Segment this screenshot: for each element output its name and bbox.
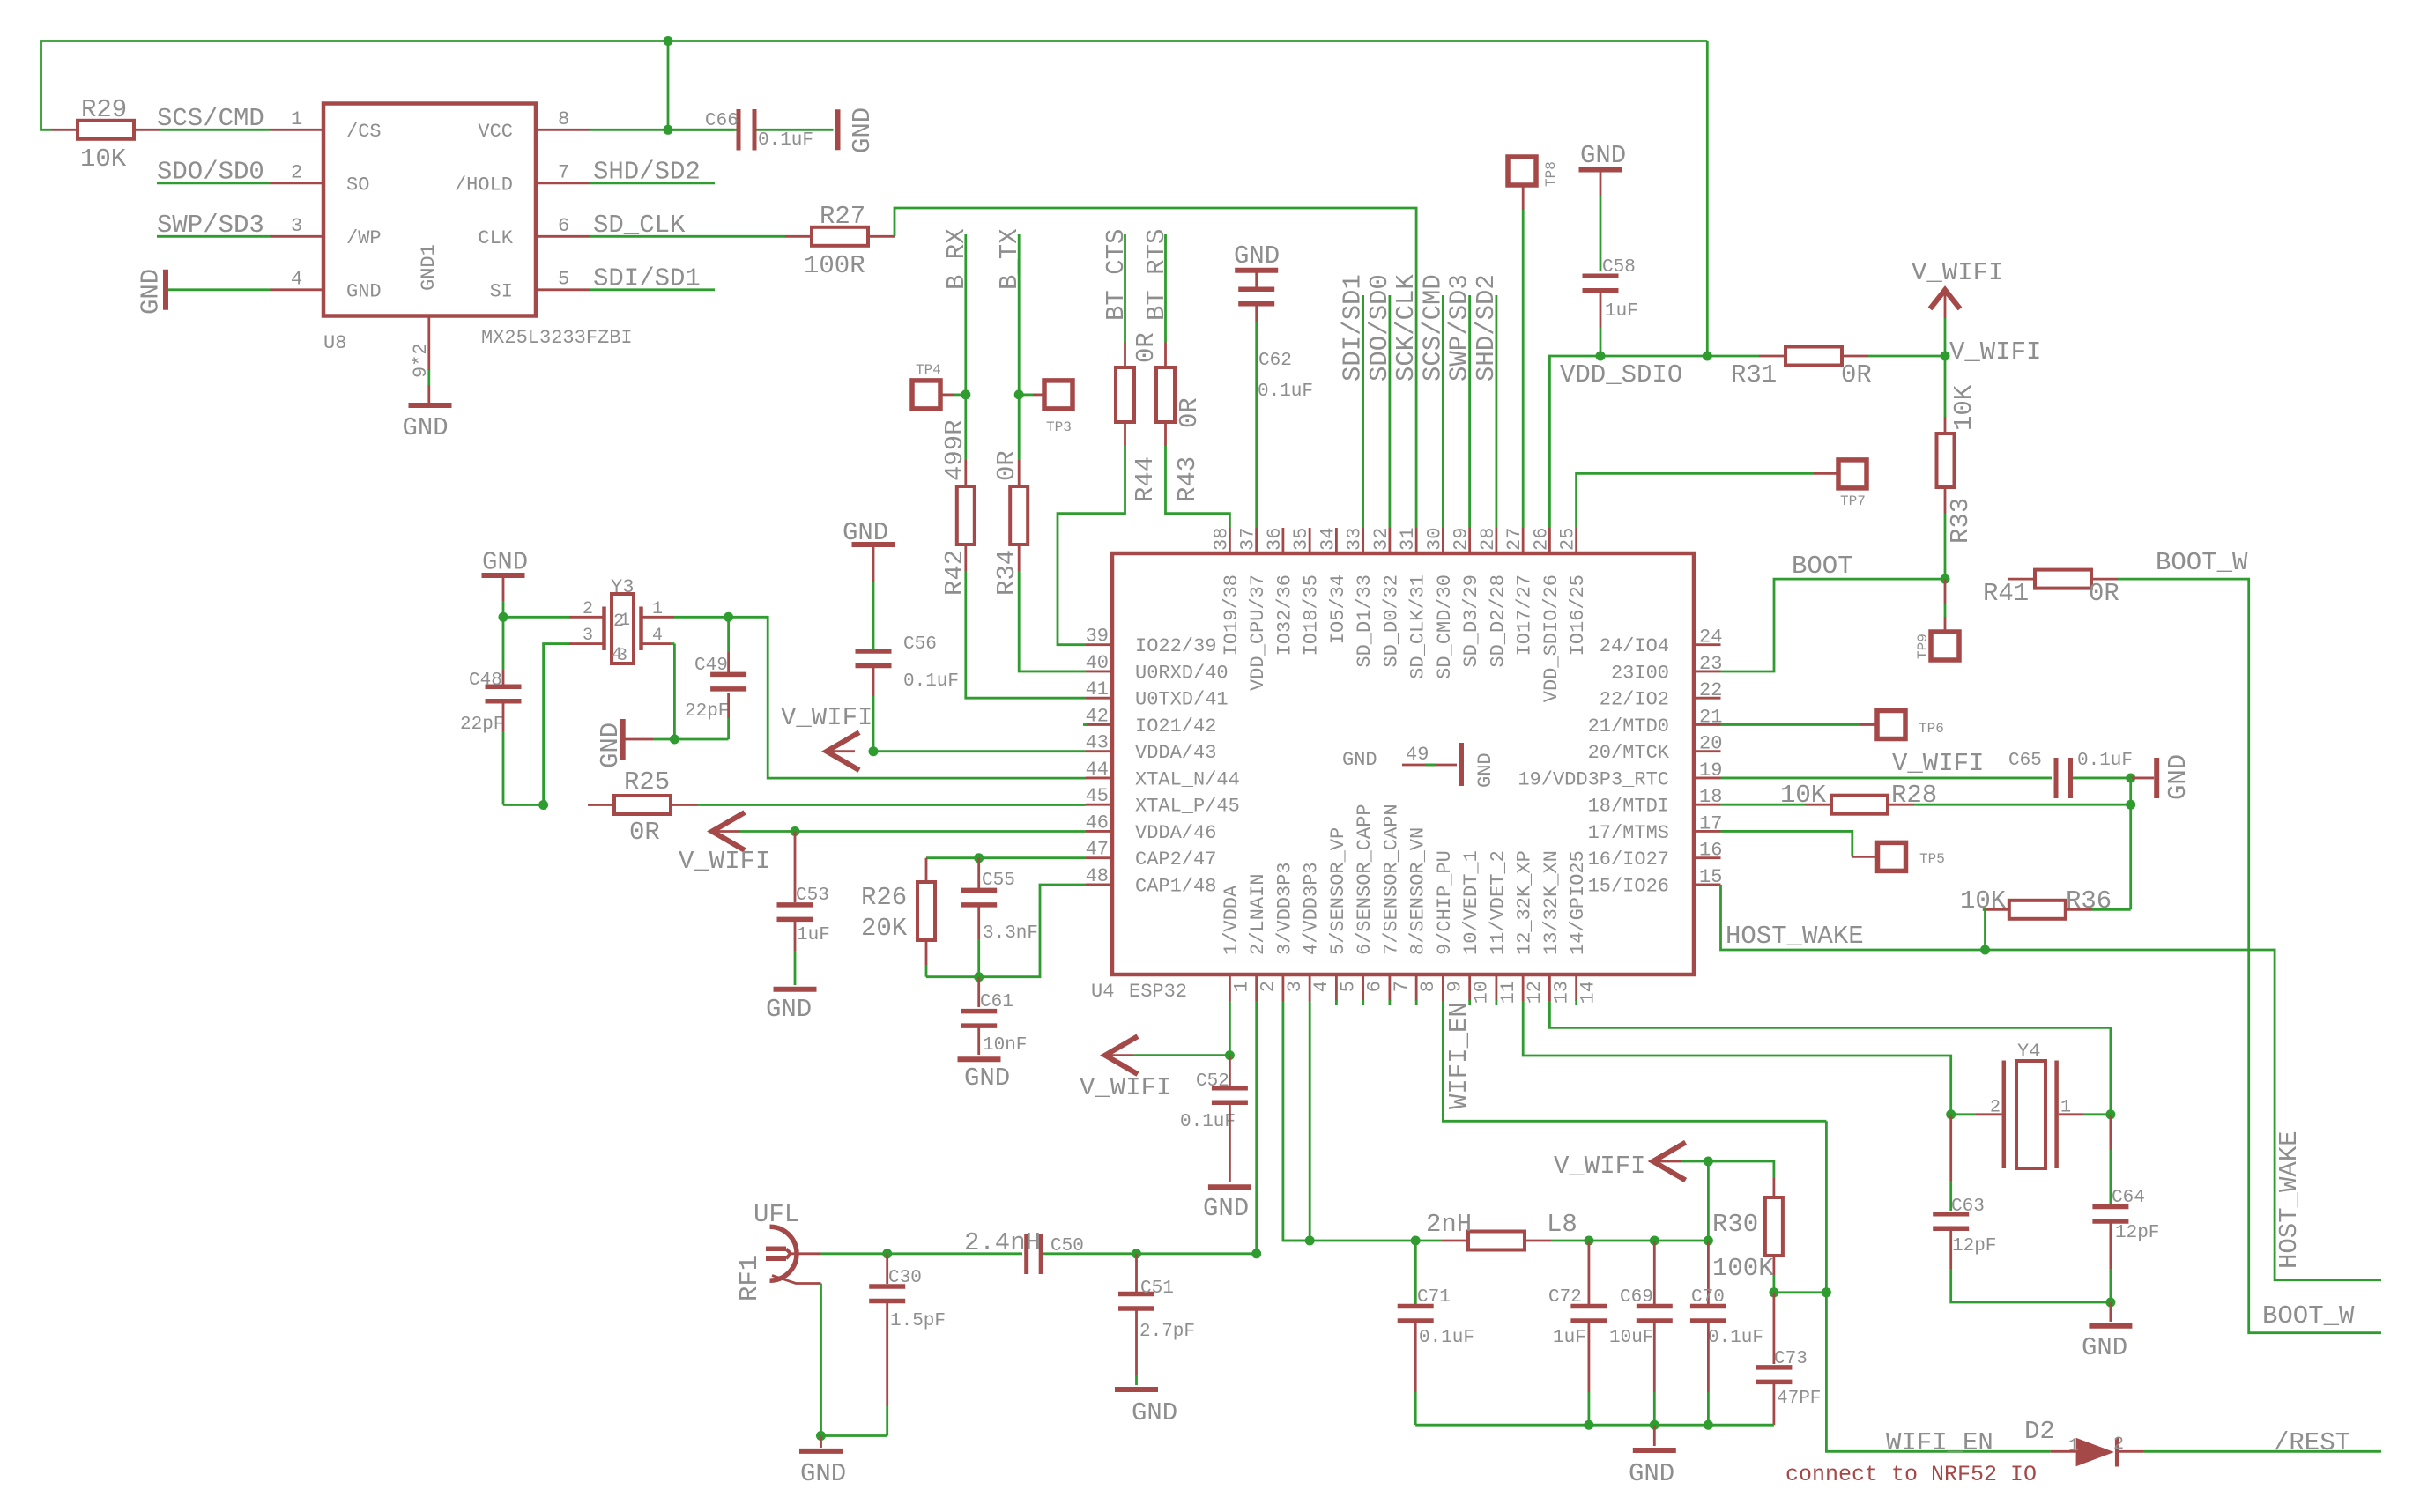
svg-text:24/IO4: 24/IO4 [1600,635,1669,657]
pin [1522,185,1525,210]
svg-text:32: 32 [1370,528,1392,551]
wire [1600,328,1602,356]
pin [502,703,505,731]
capacitor C58 [1583,257,1638,322]
svg-text:SD_CLK/31: SD_CLK/31 [1407,574,1429,679]
svg-text:27: 27 [1503,528,1525,551]
svg-text:R34: R34 [992,550,1021,596]
capacitor C51 [1118,1279,1195,1342]
svg-text:C63: C63 [1951,1197,1985,1217]
pin [1707,1322,1710,1393]
svg-text:5/SENSOR_VP: 5/SENSOR_VP [1327,827,1349,955]
svg-text:VDDA/43: VDDA/43 [1135,742,1216,764]
junction [724,612,733,622]
svg-text:U0RXD/40: U0RXD/40 [1135,662,1229,684]
svg-text:R36: R36 [2066,886,2112,915]
junction [1251,1249,1261,1258]
wire [653,738,729,741]
svg-text:3: 3 [617,646,627,666]
svg-text:21/MTD0: 21/MTD0 [1588,715,1669,737]
svg-text:GND: GND [137,269,166,315]
svg-text:TP5: TP5 [1919,851,1945,867]
net label WIFI_EN [1886,1428,1993,1457]
U4 pin 5 [1327,827,1360,1001]
wire [794,951,797,985]
resistor R36 [1983,901,2092,919]
junction [1941,352,1950,361]
pin [569,616,603,619]
junction [1411,1236,1421,1246]
net label SHD/SD2 [593,157,701,186]
svg-text:28: 28 [1477,528,1499,551]
pin [1588,1322,1591,1393]
wire [1389,295,1392,528]
wire [1019,571,1086,671]
wire [1058,446,1125,645]
svg-text:R29: R29 [81,95,127,124]
svg-text:V_WIFI: V_WIFI [1892,749,1984,778]
svg-text:3: 3 [1284,981,1306,992]
test point TP5 [1878,842,1945,871]
pin [427,385,430,403]
U4 pin 27 [1503,528,1536,656]
label R30 [1712,1210,1758,1239]
resistor R30 [1765,1178,1783,1275]
svg-text:WIFI_EN: WIFI_EN [1886,1428,1993,1457]
svg-text:48: 48 [1086,865,1109,887]
capacitor C66 [705,109,813,151]
svg-text:2.4nH: 2.4nH [964,1228,1041,1257]
svg-text:22pF: 22pF [460,715,504,735]
wire [1825,1121,1828,1293]
net label HOST_WAKE [1726,922,1864,951]
junction [664,36,673,46]
svg-text:GND: GND [1474,752,1496,788]
capacitor C53 [777,886,830,945]
svg-text:C56: C56 [903,634,937,655]
note connect to NRF52 IO [1785,1462,2037,1487]
wire [1721,777,2053,780]
resistor R43 [1156,367,1175,422]
wire [895,208,1416,528]
svg-text:V_WIFI: V_WIFI [1949,337,2041,367]
value 100K [1712,1254,1774,1283]
svg-text:5: 5 [1337,981,1359,992]
svg-text:0.1uF: 0.1uF [1180,1112,1236,1132]
label R34 [992,550,1021,596]
svg-text:19/VDD3P3_RTC: 19/VDD3P3_RTC [1518,768,1669,790]
label R42 [940,550,969,596]
wire [1018,234,1021,460]
capacitor C49 [685,656,746,722]
svg-text:connect to NRF52 IO: connect to NRF52 IO [1785,1462,2037,1487]
U8 pin numbers [291,108,569,291]
wire [168,288,271,291]
wire [1135,1375,1138,1385]
pin [271,182,324,184]
U4 pin 6 [1354,804,1386,1001]
svg-text:1: 1 [291,108,302,130]
pin [1949,1115,1952,1181]
svg-text:SD_CMD/30: SD_CMD/30 [1434,574,1456,679]
svg-text:CLK: CLK [478,227,513,249]
wire [2143,1450,2381,1453]
pin [820,1436,822,1449]
svg-text:VDD_CPU/37: VDD_CPU/37 [1247,574,1269,691]
pin end [1415,1000,1418,1005]
svg-text:17: 17 [1699,812,1722,834]
junction [1769,1287,1778,1297]
svg-text:2/LNAIN: 2/LNAIN [1247,874,1269,955]
pin [1976,1113,2002,1115]
wire [795,830,1086,833]
net label V_WIFI [679,847,770,876]
junction [816,1431,826,1441]
svg-text:C65: C65 [2008,751,2042,771]
U4 pin 12 [1514,850,1547,1004]
value 0R [1132,332,1161,363]
svg-text:29: 29 [1451,528,1473,551]
svg-text:TP9: TP9 [1915,634,1931,659]
label R29 [81,95,127,124]
junction [1225,1050,1235,1060]
wire [1706,41,1709,357]
U4 pin 24 [1600,626,1723,658]
wire [1983,908,1986,911]
pin [1653,1322,1656,1393]
wire [729,617,1086,778]
wire [502,731,505,805]
svg-text:V_WIFI: V_WIFI [1912,258,2003,287]
net label BT_RTS [1142,229,1171,321]
wire [925,965,928,977]
wire [966,571,1086,698]
pin end [1362,1000,1364,1005]
supply V_WIFI arrow [1105,1036,1138,1074]
svg-text:33: 33 [1344,528,1366,551]
wire [1774,1291,1826,1293]
capacitor C70 [1690,1287,1763,1348]
pin [925,940,928,965]
U4 pin 43 [1086,732,1217,765]
junction [1704,1420,1713,1430]
pin [1135,1254,1138,1292]
pin [1229,1056,1231,1086]
svg-text:TP6: TP6 [1919,721,1944,737]
pin [1860,723,1877,726]
svg-text:2.7pF: 2.7pF [1139,1322,1195,1342]
svg-text:IO16/25: IO16/25 [1567,574,1589,656]
pin end [1575,1000,1577,1005]
net label BOOT_W [2156,548,2248,577]
wire [1468,295,1471,528]
net label V_WIFI [1949,337,2041,367]
pin end [1083,723,1088,726]
ground [137,269,167,315]
pin [925,858,928,882]
svg-text:31: 31 [1397,528,1419,551]
svg-text:1uF: 1uF [797,925,830,945]
pin [1773,1293,1776,1364]
svg-text:R41: R41 [1983,579,2029,608]
wire [1414,1392,1417,1425]
pin [641,616,674,619]
svg-text:C48: C48 [469,671,502,691]
svg-text:GND: GND [1234,241,1280,271]
svg-text:39: 39 [1086,626,1109,648]
svg-text:IO5/34: IO5/34 [1327,574,1349,644]
label R44 [1131,456,1160,502]
svg-text:XTAL_P/45: XTAL_P/45 [1135,796,1240,818]
svg-text:0R: 0R [1132,332,1161,363]
wire [872,582,875,649]
U4 pin 39 [1086,626,1217,658]
wire [673,644,676,739]
svg-text:34: 34 [1317,528,1339,551]
net label HOST_WAKE [2275,1130,2304,1269]
wire [544,644,569,805]
svg-text:SD_D1/33: SD_D1/33 [1354,574,1376,668]
junction [2126,800,2135,810]
svg-text:TP7: TP7 [1840,493,1866,509]
net label WIFI_EN [1444,1002,1474,1109]
svg-text:4: 4 [291,269,302,291]
wire [1522,210,1525,528]
svg-text:43: 43 [1086,732,1109,754]
wire [1944,514,1947,579]
svg-text:UFL: UFL [753,1200,799,1229]
svg-text:1: 1 [1230,981,1252,992]
svg-text:GND: GND [1342,749,1377,771]
svg-text:2: 2 [2113,1434,2124,1455]
svg-text:C30: C30 [888,1268,922,1288]
value 0R [1841,360,1872,389]
wire [1600,196,1602,271]
wire [1019,393,1033,396]
wire [1309,1001,1311,1241]
wire [1721,579,1946,671]
wire [1549,356,1759,528]
pin [1164,422,1167,446]
svg-text:IO19/38: IO19/38 [1221,574,1243,656]
svg-text:R33: R33 [1946,498,1975,544]
svg-text:WIFI_EN: WIFI_EN [1444,1002,1474,1109]
wire [674,616,729,619]
test point TP8 [1508,157,1559,187]
wire [1043,1252,1137,1255]
svg-text:24: 24 [1699,626,1722,649]
svg-text:10nF: 10nF [983,1035,1027,1056]
pin [502,578,505,601]
label R25 [624,767,670,797]
svg-text:9/CHIP_PU: 9/CHIP_PU [1434,850,1456,955]
pin [1653,1241,1656,1304]
net label BT_CTS [1102,229,1131,321]
wire [1868,355,1945,358]
net label V_WIFI [1554,1152,1645,1181]
wire [1944,318,1947,356]
junction [1980,945,1990,955]
svg-text:16: 16 [1699,840,1722,862]
svg-text:30: 30 [1423,528,1445,551]
junction [1822,1287,1831,1297]
svg-text:3: 3 [291,215,302,237]
test point TP3 [1044,381,1073,435]
wire [1951,1269,2111,1302]
value 0R [992,450,1021,481]
svg-text:HOST_WAKE: HOST_WAKE [1726,922,1864,951]
svg-text:SI: SI [490,281,513,303]
pin [1653,1425,1656,1446]
ground [1579,141,1627,170]
U4 pin 20 [1588,733,1723,765]
svg-text:5: 5 [558,269,569,291]
svg-text:GND: GND [2164,754,2193,800]
wire [964,234,967,460]
wire [2118,579,2381,1333]
svg-text:10K: 10K [1960,886,2007,915]
capacitor C50 [964,1228,1084,1274]
U4 pin 42 [1086,705,1217,737]
U4 pin 7 [1380,804,1413,1001]
wire [740,830,795,833]
wire [427,370,430,385]
pin [2131,777,2154,780]
pin end [1389,1000,1392,1005]
svg-text:GND: GND [1629,1459,1674,1488]
wire [1443,1001,1826,1121]
pin [271,129,324,131]
svg-text:22: 22 [1699,679,1722,701]
junction [869,746,879,756]
svg-text:26: 26 [1530,528,1552,551]
pin [964,545,967,571]
wire [1133,1054,1229,1056]
svg-text:10K: 10K [80,145,127,174]
svg-text:19: 19 [1699,760,1722,782]
wire [1914,804,2131,806]
wire [1362,295,1364,528]
svg-text:MX25L3233FZBI: MX25L3233FZBI [481,327,633,349]
pin [977,858,980,888]
capacitor C30 [869,1268,946,1331]
pin [977,977,980,1007]
svg-text:2: 2 [613,611,624,632]
net label V_WIFI [781,703,872,732]
wire [727,617,730,652]
svg-text:17/MTMS: 17/MTMS [1588,822,1669,844]
wire [1577,473,1814,528]
U4 pin 36 [1264,528,1296,656]
net label SHD/SD2 [1472,274,1501,382]
svg-text:GND: GND [346,281,382,303]
label 9*2 [410,343,432,378]
wire [1283,1001,1310,1241]
svg-text:VDDA/46: VDDA/46 [1135,822,1216,844]
svg-text:6: 6 [558,215,569,237]
svg-text:22pF: 22pF [685,701,729,722]
svg-text:IO22/39: IO22/39 [1135,635,1216,657]
svg-text:100K: 100K [1712,1254,1774,1283]
U4 pin 14 [1567,850,1600,1004]
label U4 [1091,981,1114,1003]
svg-text:10: 10 [1471,981,1493,1004]
pin [1944,487,1947,514]
svg-text:C58: C58 [1602,257,1636,278]
svg-text:R31: R31 [1731,360,1777,389]
svg-text:V_WIFI: V_WIFI [679,847,770,876]
resistor R44 [1116,367,1134,422]
pin end [1468,1000,1471,1005]
resistor R34 [1010,486,1028,545]
junction [1650,1420,1659,1430]
pin [886,1301,888,1406]
Y4 pin numbers [1990,1098,2071,1118]
pin [727,652,730,672]
svg-text:BT_RTS: BT_RTS [1142,229,1171,321]
wire [1826,1293,2050,1452]
svg-text:SD_D3/29: SD_D3/29 [1460,574,1482,668]
svg-text:20: 20 [1699,733,1722,755]
ground [958,1059,1011,1093]
wire [1944,356,1947,417]
pin [536,129,590,131]
svg-text:3/VDD3P3: 3/VDD3P3 [1273,862,1295,955]
svg-text:0R: 0R [629,818,660,847]
svg-text:R30: R30 [1712,1210,1758,1239]
svg-text:11: 11 [1497,981,1519,1004]
svg-text:C66: C66 [705,111,739,131]
label R43 [1173,456,1202,502]
wire [1124,234,1126,343]
svg-text:GND: GND [1580,141,1626,170]
wire [1137,1252,1257,1255]
wire [157,235,271,238]
wire [1164,234,1167,343]
resistor R26 [917,882,935,940]
value 0R [1175,397,1204,428]
net label BOOT [1792,552,1853,581]
wire [1549,1001,2110,1115]
value 10K [80,145,127,174]
svg-text:2nH: 2nH [1426,1210,1472,1239]
label R28 [1891,781,1937,810]
svg-text:GND: GND [1132,1398,1177,1427]
svg-text:GND: GND [596,723,625,768]
wire [1496,295,1498,528]
pin [1588,1241,1591,1304]
wire [590,129,739,131]
svg-text:10K: 10K [1949,384,1978,431]
wire [926,856,979,859]
ground [596,719,625,768]
svg-text:ESP32: ESP32 [1129,981,1187,1003]
net label SD_CLK [593,211,686,240]
svg-text:7: 7 [558,162,569,184]
svg-text:11/VDET_2: 11/VDET_2 [1487,850,1509,955]
svg-text:U0TXD/41: U0TXD/41 [1135,689,1229,711]
U4 pin 15 [1588,866,1723,898]
label R33 [1946,498,1975,544]
wire [1721,804,1806,806]
junction [1014,389,1024,399]
U4 pin 35 [1290,528,1323,656]
U4 pin 28 [1477,528,1510,668]
resistor R42 [957,486,975,545]
wire [1951,1113,1976,1115]
wire [2129,804,2132,909]
net label SDO/SD0 [1365,274,1394,382]
